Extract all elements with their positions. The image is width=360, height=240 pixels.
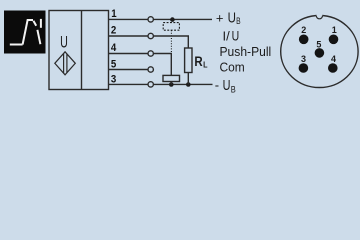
svg-text:2: 2: [111, 25, 117, 37]
svg-text:I/: I/: [223, 29, 231, 44]
svg-text:5: 5: [111, 59, 117, 71]
sensor box U1: [49, 11, 109, 90]
terminal circle wire 3: [148, 82, 153, 87]
terminal circle wire 5: [148, 67, 153, 72]
resistor RL: [185, 48, 192, 73]
wire 1 (+UB): [109, 18, 148, 20]
svg-text:3: 3: [111, 74, 117, 86]
dotted link from dashed box to wire 4: [170, 30, 172, 53]
sensor symbol inner chords: [63, 54, 65, 74]
connector pin 4: [328, 63, 338, 73]
junction dot on wire 1: [170, 17, 175, 22]
connector pin 5: [315, 48, 325, 58]
svg-text:1: 1: [111, 8, 117, 20]
svg-text:B: B: [231, 84, 236, 95]
svg-text:U: U: [223, 78, 231, 94]
svg-text:Com: Com: [220, 60, 245, 75]
svg-text:2: 2: [301, 25, 306, 35]
junction dot wire 3 left: [169, 82, 174, 87]
svg-text:L: L: [203, 60, 208, 70]
wire from load box to wire 3: [170, 82, 172, 85]
connector pin 3: [299, 63, 309, 73]
dotted link from wire 1 to dashed box: [170, 20, 172, 23]
svg-text:R: R: [194, 54, 202, 69]
svg-text:U: U: [228, 9, 236, 26]
svg-text:4: 4: [331, 54, 336, 64]
icon tick mark: [40, 19, 42, 28]
svg-text:3: 3: [301, 54, 306, 64]
sensor box divider: [81, 11, 83, 90]
connector pin 2: [299, 35, 309, 45]
wire 3 (-UB): [109, 83, 148, 85]
svg-text:+: +: [216, 10, 224, 25]
load box on push-pull output: [163, 75, 180, 81]
connector pin 1: [329, 35, 339, 45]
svg-text:B: B: [236, 16, 241, 26]
icon waveform: falling slope: [33, 21, 36, 26]
svg-text:1: 1: [332, 25, 337, 35]
terminal circle wire 4: [148, 51, 153, 56]
wire 5 (Com): [109, 69, 148, 71]
icon waveform: low level: [10, 44, 23, 46]
terminal circle wire 1: [148, 17, 153, 22]
terminal circle wire 2: [148, 33, 153, 38]
icon waveform: rising ramp: [23, 20, 33, 45]
svg-text:U: U: [60, 33, 68, 52]
connector keyway notch: [316, 13, 322, 19]
junction dot wire 3 right: [186, 82, 191, 87]
ramp-output icon (black square): [4, 11, 46, 54]
wire below RL to wire 3: [187, 73, 189, 85]
wire 2 (I/U): [109, 35, 148, 37]
optional pull-up resistor (dashed box): [163, 23, 179, 31]
svg-text:4: 4: [111, 43, 117, 55]
wire 4 (Push-Pull): [109, 53, 148, 55]
svg-text:Push-Pull: Push-Pull: [220, 45, 272, 59]
sensor symbol diamond: [55, 52, 76, 75]
svg-text:-: -: [215, 78, 219, 93]
connector outline (M12 face view): [281, 16, 358, 88]
svg-text:U: U: [232, 28, 240, 44]
svg-text:5: 5: [316, 39, 321, 49]
